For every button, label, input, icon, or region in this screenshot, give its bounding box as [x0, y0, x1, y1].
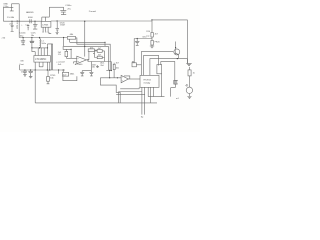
capacitor C25	[89, 71, 93, 76]
wire op-amp output	[86, 59, 88, 61]
wire LED feed	[188, 67, 190, 70]
wire rail C	[20, 69, 65, 71]
svg-text:16v: 16v	[31, 35, 35, 37]
svg-text:AB0965: AB0965	[26, 11, 34, 14]
resistor R8	[188, 70, 191, 76]
wire crystal to pin	[136, 64, 141, 66]
transistor Q1 emitter	[175, 53, 178, 59]
svg-text:GN: GN	[20, 60, 24, 62]
LED D2 arrows	[186, 84, 189, 86]
resistor R6	[97, 56, 102, 59]
wire loop below B3	[63, 76, 77, 81]
wire	[62, 70, 64, 72]
svg-text:L7805: L7805	[42, 24, 49, 26]
wire	[52, 44, 54, 70]
ground right	[186, 63, 191, 65]
wire H1	[70, 39, 105, 42]
node junction	[35, 69, 36, 70]
wire	[110, 62, 112, 71]
wire rail A extension	[152, 19, 188, 21]
node junction	[177, 58, 178, 59]
node junction	[175, 47, 176, 48]
svg-text:C1u: C1u	[25, 24, 30, 26]
node junction	[47, 47, 48, 48]
wire U5 pin 4	[148, 87, 164, 96]
wire to caps	[82, 62, 91, 71]
capacitor C16	[21, 38, 25, 45]
wire U5 pin loop 1	[120, 87, 139, 89]
svg-text:1N41: 1N41	[70, 74, 76, 76]
wire battery vertical	[18, 4, 20, 38]
regulator U1 box	[41, 21, 51, 27]
resistor R7 leads	[113, 63, 115, 78]
wire	[187, 59, 189, 64]
svg-text:2k0: 2k0	[100, 65, 104, 67]
wire	[48, 7, 50, 17]
wire	[58, 70, 60, 74]
node junction	[71, 49, 72, 50]
node junction	[63, 69, 64, 70]
wire U5 pin loop 3	[144, 87, 146, 114]
divider comp1	[151, 33, 153, 38]
node junction	[39, 37, 40, 38]
node junction	[63, 37, 64, 38]
node junction	[23, 37, 24, 38]
resistor R2 lead	[47, 70, 50, 84]
resistor R5	[97, 50, 102, 53]
node junction	[49, 69, 50, 70]
resistor R3 leads	[65, 49, 67, 58]
svg-text:4k7: 4k7	[155, 33, 159, 35]
svg-text:AC9600: AC9600	[75, 63, 83, 66]
wire to op-amp minus	[70, 49, 72, 58]
svg-text:16v: 16v	[92, 67, 95, 69]
wire op-amp2 output	[128, 78, 140, 80]
node junction	[19, 21, 20, 22]
wire shunt rail	[134, 38, 152, 40]
svg-text:PR20: PR20	[155, 42, 161, 44]
svg-text:2 toroid: 2 toroid	[89, 10, 97, 13]
wire	[3, 6, 9, 8]
wire R1 output	[76, 38, 111, 70]
inductor L1 coil	[40, 38, 41, 48]
svg-text:+: +	[21, 25, 23, 27]
resistor R9 on box top	[157, 65, 162, 74]
node junction	[31, 37, 32, 38]
node junction	[111, 70, 112, 71]
svg-text:C100u: C100u	[65, 5, 72, 7]
ground small right	[96, 65, 99, 68]
node junction	[104, 42, 105, 43]
node junction	[58, 69, 59, 70]
regulator U1 bottom pins	[43, 27, 48, 31]
IC U2 box	[34, 56, 50, 63]
capacitor C14	[33, 21, 38, 29]
wire pin header line	[32, 47, 48, 49]
wire rail A left	[3, 20, 41, 22]
IC U5 box	[140, 75, 159, 87]
capacitor C24	[80, 71, 84, 76]
wire	[48, 44, 53, 48]
capacitor C10	[10, 4, 14, 11]
capacitor C11	[11, 21, 14, 31]
node junction	[87, 59, 88, 60]
svg-text:1.5-7Ah: 1.5-7Ah	[7, 16, 15, 19]
op-amp U4	[121, 75, 128, 82]
wire	[12, 3, 20, 5]
wire to op-amp U3 minus	[66, 57, 76, 59]
wire regulator hat	[42, 17, 50, 21]
capacitor C23	[135, 39, 139, 46]
svg-text:1k: 1k	[193, 73, 195, 75]
wire long vertical from rail A	[84, 21, 86, 57]
resistor R2	[47, 77, 50, 82]
LED D2	[186, 87, 192, 93]
transistor Q1 collector	[175, 42, 177, 49]
svg-text:63v: 63v	[20, 35, 24, 37]
wire staircase second	[117, 92, 119, 103]
wire U5 pin loop 3h	[116, 94, 145, 96]
speaker LS1 hatch	[175, 80, 179, 84]
svg-text:BT1 4.8V: BT1 4.8V	[17, 19, 19, 28]
wire U5 pin loop 2	[141, 87, 143, 114]
ground under LED	[187, 97, 191, 99]
capacitor C19	[28, 70, 33, 78]
wire rail B	[19, 37, 67, 39]
svg-text:1%: 1%	[58, 54, 61, 56]
svg-text:1k0: 1k0	[116, 67, 120, 69]
wire plus input	[74, 62, 77, 64]
svg-text:68k: 68k	[70, 34, 74, 36]
node junction	[84, 21, 85, 22]
resistor R1	[67, 37, 75, 40]
wire speaker feed staircase	[161, 61, 175, 80]
wire speaker bottom	[171, 84, 176, 97]
wire U5 pin loop 2h	[118, 91, 142, 93]
wire	[2, 7, 4, 21]
wire rail A right	[51, 20, 152, 22]
svg-text:AC1: AC1	[100, 62, 105, 65]
svg-text:Sp: Sp	[141, 117, 144, 119]
wire op-amp2 input rail	[100, 77, 121, 79]
capacitor C18	[23, 70, 27, 76]
wire staircase 2	[144, 55, 159, 75]
wire R5 R6 left join	[93, 51, 97, 58]
speaker LS1	[174, 80, 177, 84]
wire long drop to rail D	[34, 70, 36, 103]
wire	[151, 20, 153, 46]
node junction	[109, 77, 110, 78]
node junction	[84, 46, 85, 47]
wire rail D	[35, 102, 157, 104]
op-amp U3	[77, 56, 87, 64]
resistor R3 vertical	[65, 51, 68, 56]
svg-text:4c0: 4c0	[58, 64, 62, 66]
wire cluster H	[106, 69, 111, 71]
wire R9 bottom drop	[160, 74, 162, 97]
op-amp U4 input marks	[121, 77, 124, 81]
LED D2 leads	[188, 76, 190, 96]
node junction	[109, 70, 110, 71]
svg-text:C100n: C100n	[20, 33, 27, 35]
capacitor C17 leads	[31, 38, 33, 48]
op-amp U3 input marks	[78, 58, 79, 62]
svg-text:4000: 4000	[28, 17, 33, 19]
wire W_b	[64, 38, 109, 71]
wire stub	[19, 65, 21, 70]
svg-text:R10: R10	[146, 31, 151, 33]
svg-text:HT2812: HT2812	[144, 80, 152, 82]
capacitor C17 polarized	[30, 41, 35, 42]
node junction	[24, 69, 25, 70]
node junction	[11, 21, 12, 22]
wire jog to IC pins	[32, 48, 35, 52]
node junction	[39, 47, 40, 48]
crystal C22	[132, 63, 136, 67]
node junction	[30, 69, 31, 70]
svg-text:100u: 100u	[41, 43, 46, 45]
diode D1	[56, 21, 60, 32]
capacitor C15	[60, 7, 66, 14]
resistor R4	[88, 49, 94, 51]
wire	[104, 42, 106, 46]
transistor Q1 bar	[174, 50, 176, 55]
svg-text:m1: m1	[176, 98, 180, 100]
wire base staircase	[141, 52, 173, 76]
svg-text:1N47: 1N47	[60, 24, 66, 26]
ground marks under U1	[42, 32, 51, 34]
ground mark	[56, 33, 59, 35]
wire IC top pins	[35, 48, 47, 56]
node junction	[117, 77, 118, 78]
svg-text:10k: 10k	[50, 78, 54, 80]
wire stub to minus node	[63, 46, 71, 49]
wire staircase	[100, 78, 120, 103]
node junction	[137, 38, 138, 39]
svg-text:+Vb: +Vb	[1, 37, 6, 39]
wire U5 pin 5 to rail D	[150, 87, 152, 103]
wire	[109, 70, 111, 78]
svg-text:LTC1345C: LTC1345C	[35, 59, 46, 61]
wire emitter rail	[150, 59, 188, 76]
node junction	[47, 69, 48, 70]
wire feedback vertical	[88, 51, 90, 60]
transistor Q1	[174, 49, 180, 55]
svg-text:25v: 25v	[67, 9, 71, 11]
svg-text:Cw: Cw	[146, 35, 149, 37]
wire top	[49, 6, 63, 8]
wire	[186, 20, 188, 64]
IC U2 bottom pins	[35, 62, 50, 70]
capacitor C12 series plates	[30, 19, 31, 23]
wire R4 right	[95, 49, 98, 51]
wire feedback U4	[124, 76, 130, 79]
wire down to crystal	[133, 39, 135, 63]
wire	[50, 44, 52, 70]
wire R5 R6 right join	[102, 51, 104, 62]
box B3	[62, 72, 68, 76]
wire output down	[88, 60, 111, 62]
node junction	[57, 20, 58, 21]
capacitor C13	[27, 26, 30, 31]
node junction	[34, 21, 35, 22]
svg-text:4k7: 4k7	[116, 62, 120, 64]
preset PR1	[151, 40, 153, 45]
ground	[150, 46, 154, 48]
resistor R7	[113, 64, 115, 69]
svg-text:melody: melody	[144, 83, 152, 85]
node junction	[31, 47, 32, 48]
node junction rail A right end	[151, 19, 152, 20]
